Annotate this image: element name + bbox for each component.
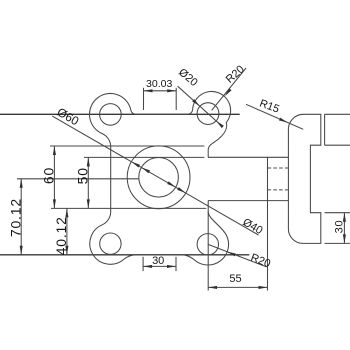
- dim 30 line: [143, 265, 176, 267]
- top reference line: [0, 113, 240, 115]
- hidden line upper: [268, 167, 289, 169]
- arrows dim 30 bottom: [143, 265, 152, 268]
- hole bottom-left: [100, 233, 121, 254]
- arrows dim 40.12: [65, 208, 68, 217]
- extension line top of bore: [84, 156, 204, 158]
- dim 30 right extension lines: [325, 212, 350, 214]
- dim 70.12 line: [20, 179, 22, 255]
- plate right edge lower / 55 extension: [207, 201, 209, 291]
- svg-text:40.12: 40.12: [53, 216, 69, 255]
- arrows dim 55: [208, 286, 217, 289]
- bore circle D40: [139, 158, 179, 198]
- extension line bottom of boss: [51, 207, 206, 209]
- shaft step / 55 right extension: [267, 157, 269, 290]
- hidden line lower: [268, 189, 289, 191]
- dim 60 line: [53, 146, 55, 208]
- dim 40.12 line: [66, 208, 68, 254]
- dim 30 right line: [343, 213, 345, 244]
- dim 30.03 line: [144, 90, 177, 92]
- adjacent part left edge: [324, 114, 326, 145]
- extension line center height: [17, 178, 139, 180]
- arrows dim 60: [53, 146, 56, 155]
- plate right edge upper: [207, 150, 209, 157]
- svg-text:30.03: 30.03: [146, 78, 172, 90]
- dim 55 line: [208, 286, 268, 288]
- svg-text:55: 55: [229, 273, 241, 285]
- arrow leader R15: [279, 118, 288, 123]
- extension line top of boss: [50, 145, 204, 147]
- dim 50 line: [87, 157, 89, 208]
- plate outline: [89, 91, 230, 265]
- hole bottom-right: [197, 234, 218, 255]
- svg-text:30: 30: [152, 255, 164, 267]
- hole top-right: [197, 103, 219, 125]
- adjacent part top edge: [325, 113, 350, 115]
- svg-text:70.12: 70.12: [7, 198, 23, 237]
- dim 30.03 extension lines: [143, 88, 145, 110]
- svg-text:60: 60: [41, 167, 57, 184]
- boss circle D60: [127, 146, 190, 209]
- leader D20: [178, 86, 223, 126]
- arrow leader R20 bottom: [227, 252, 236, 257]
- diameter dim diagonal: [52, 116, 258, 235]
- arrows dim 30.03: [144, 89, 153, 92]
- arrows dim 50: [87, 157, 90, 166]
- leader R20 bottom: [208, 244, 267, 267]
- bottom reference line: [0, 254, 249, 256]
- adjacent part bottom edge: [325, 144, 350, 146]
- arrows dim D60: [131, 162, 140, 168]
- arrow leader R20 top: [225, 88, 232, 96]
- arrows leader D20: [192, 99, 200, 106]
- shaft bottom edge: [208, 200, 288, 202]
- svg-text:30: 30: [333, 220, 345, 234]
- side view body: [288, 114, 320, 243]
- arrows dim 70.12: [20, 179, 23, 188]
- arrows dim D40: [141, 167, 150, 173]
- leader R20 top: [212, 68, 246, 110]
- shaft top edge: [208, 156, 288, 158]
- svg-text:50: 50: [75, 167, 91, 184]
- hole top-left: [100, 104, 122, 126]
- leader R15: [246, 104, 303, 129]
- dim 30 extension lines: [142, 257, 144, 271]
- arrows dim 30 right: [343, 213, 346, 222]
